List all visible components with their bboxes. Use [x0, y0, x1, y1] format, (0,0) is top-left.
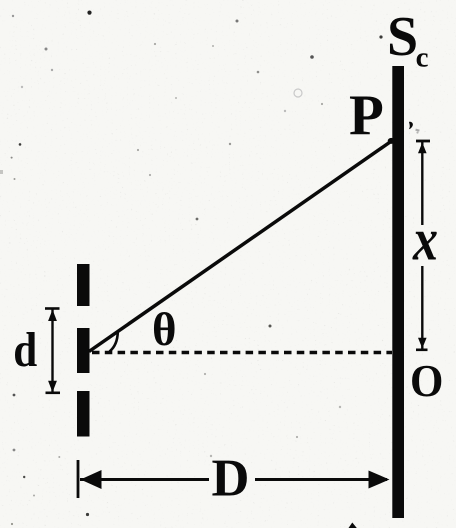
svg-text:θ: θ: [152, 304, 177, 356]
svg-text:P: P: [349, 84, 384, 147]
svg-text:S: S: [387, 6, 418, 68]
svg-text:x: x: [412, 207, 438, 273]
svg-text:O: O: [410, 355, 443, 406]
svg-text:d: d: [13, 322, 37, 377]
svg-text:D: D: [212, 450, 250, 508]
svg-text:c: c: [416, 42, 429, 74]
